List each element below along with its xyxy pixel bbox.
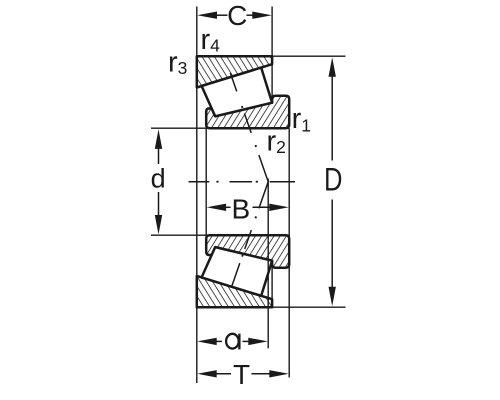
dimension T right arrow	[269, 370, 289, 377]
dimension B line	[224, 206, 231, 208]
pressure line lower (dash-dot through roller to load center)	[231, 182, 268, 288]
extension line: left face (C/a/T left, full height)	[196, 7, 198, 384]
svg-text:B: B	[231, 194, 250, 225]
extension line: OD bottom (to D dimension)	[272, 306, 345, 308]
svg-text:d: d	[151, 164, 166, 194]
dimension D line (vertical)	[331, 74, 333, 161]
roller upper (tapered roller, white)	[202, 68, 273, 117]
svg-text:C: C	[227, 0, 247, 31]
extension line: bore top (d upper)	[151, 127, 289, 129]
dimension a right arrow	[248, 338, 267, 345]
svg-text:D: D	[324, 163, 342, 198]
extension line: cone back face (B/T right)	[288, 128, 290, 377]
dimension a left arrow	[197, 338, 217, 345]
extension line: load center (a right)	[267, 179, 269, 349]
dimension D top arrow	[329, 57, 336, 76]
dimension T left arrow	[197, 370, 217, 377]
svg-text:T: T	[233, 359, 250, 390]
dimension d top arrow	[155, 129, 162, 149]
dimension T line	[215, 373, 232, 375]
extension line: cone front face (B left)	[205, 128, 207, 235]
dimension C right arrow	[252, 12, 271, 19]
dimension B left arrow	[207, 204, 227, 211]
dimension a label (single-story technical a)	[226, 334, 239, 350]
extension line: right face top (C right, cup right face, rib front)	[271, 7, 273, 104]
extension line: bore bottom (d lower)	[151, 234, 289, 236]
dimension B right arrow	[269, 204, 289, 211]
dimension C left arrow	[197, 12, 217, 19]
cup (outer ring) upper section, hatched	[197, 56, 272, 87]
pressure line upper (dash-dot through roller to load center)	[230, 73, 268, 182]
cone (inner ring) upper section, hatched	[206, 96, 289, 129]
dimension d bottom arrow	[155, 215, 162, 235]
dimension d line (vertical)	[158, 147, 160, 164]
roller lower (tapered roller, white)	[202, 247, 273, 296]
dimension a line	[215, 340, 223, 342]
cup (outer ring) lower section, hatched	[197, 276, 272, 307]
cone (inner ring) lower section, hatched	[206, 235, 289, 268]
extension line: OD top (to D dimension)	[272, 55, 345, 57]
centerline (bearing axis, dash-dot)	[189, 181, 296, 183]
extension line: right face bottom section (rib front to cup face)	[271, 260, 273, 306]
dimension D bottom arrow	[329, 287, 336, 307]
dimension C line	[214, 14, 228, 16]
